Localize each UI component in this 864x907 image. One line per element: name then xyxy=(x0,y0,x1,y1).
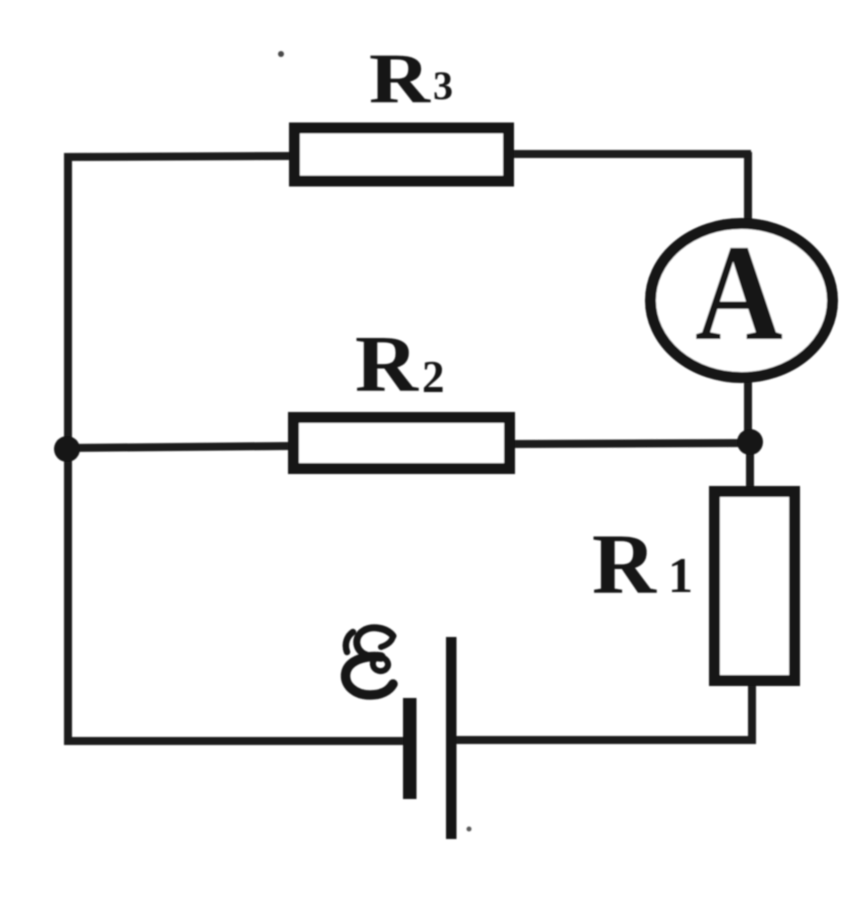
wire ammeter top vertical xyxy=(744,152,752,222)
wire top-right horizontal xyxy=(511,150,751,158)
wire R1 bottom vertical xyxy=(748,684,756,744)
node right junction xyxy=(737,429,763,455)
svg-text:3: 3 xyxy=(433,63,453,108)
svg-text:R: R xyxy=(592,516,657,612)
wire middle-left horizontal xyxy=(65,446,291,448)
ammeter U1 xyxy=(651,224,833,378)
svg-text:R: R xyxy=(355,321,419,409)
speck top xyxy=(278,51,284,57)
svg-text:1: 1 xyxy=(668,547,693,603)
wire bottom-right horizontal xyxy=(452,736,752,744)
wire top-left horizontal xyxy=(64,156,292,157)
svg-text:A: A xyxy=(695,216,783,369)
resistor R3 xyxy=(295,128,509,181)
label EMF script E xyxy=(346,628,393,695)
wire middle-right horizontal xyxy=(513,443,752,444)
battery negative plate (thick short) xyxy=(403,698,417,799)
resistor R1 xyxy=(715,492,795,681)
node left junction xyxy=(54,436,80,462)
svg-text:2: 2 xyxy=(422,352,445,402)
speck bottom xyxy=(467,827,472,832)
wire bottom-left horizontal xyxy=(64,737,406,745)
battery positive plate (thin long) xyxy=(446,637,457,839)
wire R1 top vertical xyxy=(746,440,754,490)
svg-text:R: R xyxy=(369,40,431,118)
resistor R2 xyxy=(294,418,510,469)
wire left vertical xyxy=(64,153,72,744)
wire ammeter bottom vertical xyxy=(744,381,752,444)
